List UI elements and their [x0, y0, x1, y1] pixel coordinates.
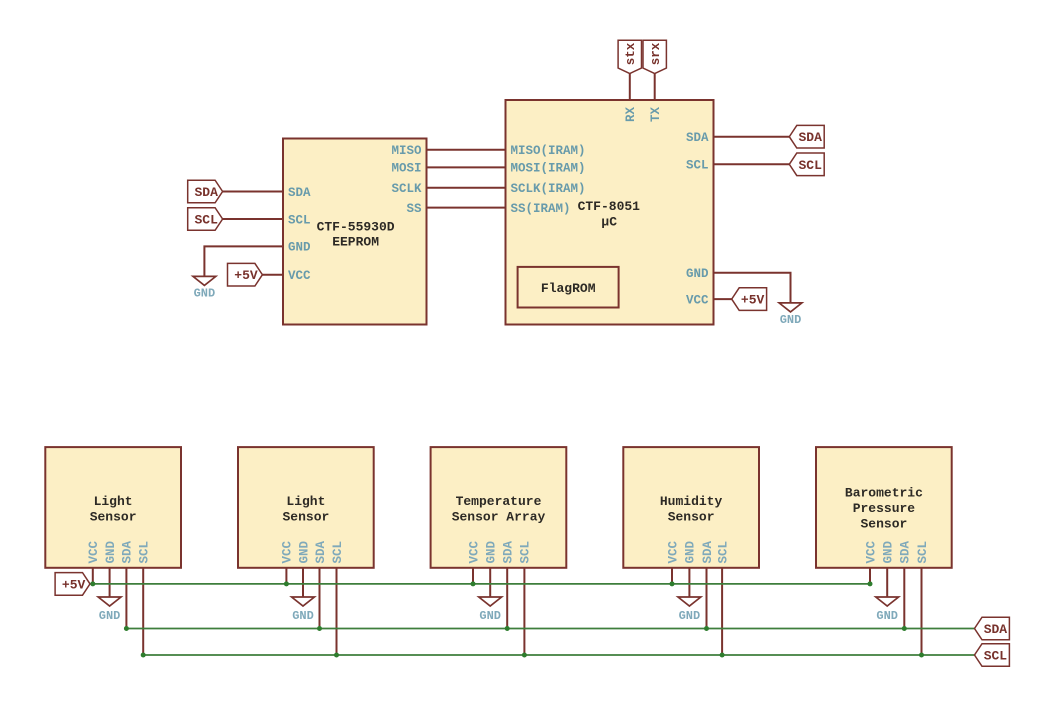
component U1 CTF-55930D EEPROM body [283, 139, 427, 325]
wire SS [427, 207, 506, 209]
global label stx [618, 40, 641, 73]
svg-text:SDA: SDA [686, 131, 709, 145]
svg-text:SCL: SCL [519, 541, 533, 564]
svg-text:GND: GND [479, 609, 501, 623]
svg-text:SDA: SDA [984, 622, 1008, 637]
svg-text:GND: GND [882, 540, 896, 563]
S1 SCL wire [142, 568, 144, 655]
junction S5 VCC [868, 581, 873, 586]
S5 GND wire [886, 568, 888, 597]
svg-text:GND: GND [104, 540, 118, 563]
svg-text:µC: µC [601, 215, 617, 230]
svg-text:SCL: SCL [984, 649, 1008, 664]
svg-text:SCLK(IRAM): SCLK(IRAM) [511, 182, 586, 196]
S5 VCC wire [869, 568, 871, 584]
S1 VCC wire [92, 568, 94, 584]
junction S4 SCL [720, 653, 725, 658]
svg-text:VCC: VCC [87, 540, 101, 563]
S1 GND wire [109, 568, 111, 597]
svg-text:FlagROM: FlagROM [541, 281, 596, 296]
svg-text:CTF-8051: CTF-8051 [578, 199, 641, 214]
wire U2 SCL [714, 163, 790, 165]
global label SCL bus [975, 644, 1010, 667]
svg-text:VCC: VCC [281, 540, 295, 563]
U2 FlagROM block [518, 267, 619, 308]
svg-text:Sensor: Sensor [860, 516, 907, 531]
svg-text:Sensor: Sensor [90, 509, 137, 524]
junction S5 SDA [902, 626, 907, 631]
S3 VCC wire [472, 568, 474, 584]
ground symbol U2 [779, 303, 802, 312]
svg-text:GND: GND [876, 609, 898, 623]
junction S3 VCC [471, 581, 476, 586]
svg-text:SDA: SDA [701, 540, 715, 563]
svg-text:GND: GND [297, 540, 311, 563]
svg-text:SCLK: SCLK [391, 182, 422, 196]
svg-text:GND: GND [288, 241, 311, 255]
svg-text:srx: srx [649, 42, 663, 65]
junction S2 SDA [317, 626, 322, 631]
svg-text:TX: TX [649, 106, 663, 122]
S3 ground symbol [479, 597, 502, 606]
svg-text:stx: stx [624, 42, 638, 65]
svg-text:Pressure: Pressure [853, 501, 916, 516]
junction S1 VCC [90, 581, 95, 586]
S3 GND wire [489, 568, 491, 597]
S2 GND wire [302, 568, 304, 597]
junction S1 SDA [124, 626, 129, 631]
svg-text:VCC: VCC [288, 269, 311, 283]
svg-text:SDA: SDA [288, 186, 311, 200]
svg-text:SCL: SCL [138, 541, 152, 564]
svg-text:SCL: SCL [194, 213, 218, 228]
power label +5V U2 [732, 288, 767, 311]
component U2 CTF-8051 microcontroller body [506, 100, 714, 325]
svg-text:MISO: MISO [391, 144, 422, 158]
ground symbol U1 [193, 276, 216, 285]
junction S2 SCL [334, 653, 339, 658]
wire SCLK [427, 187, 506, 189]
svg-text:Sensor: Sensor [668, 509, 715, 524]
S1 SDA wire [125, 568, 127, 629]
svg-text:SS(IRAM): SS(IRAM) [511, 202, 571, 216]
S1 ground symbol [98, 597, 121, 606]
junction S4 VCC [670, 581, 675, 586]
svg-text:Light: Light [286, 494, 325, 509]
svg-text:GND: GND [194, 287, 216, 301]
svg-text:MOSI(IRAM): MOSI(IRAM) [511, 162, 586, 176]
global label SDA right [789, 125, 824, 148]
svg-text:SDA: SDA [899, 540, 913, 563]
svg-text:VCC: VCC [686, 293, 709, 307]
S4 SCL wire [721, 568, 723, 655]
svg-text:MOSI: MOSI [391, 162, 421, 176]
svg-text:+5V: +5V [62, 577, 86, 592]
global label SCL left [188, 208, 223, 231]
S3 SDA wire [506, 568, 508, 629]
svg-text:SDA: SDA [314, 540, 328, 563]
S4 ground symbol [678, 597, 701, 606]
sensor S2 Light Sensor body [238, 447, 374, 568]
wire U2 SDA [714, 136, 790, 138]
S5 SDA wire [903, 568, 905, 629]
S4 GND wire [688, 568, 690, 597]
+5V rail wire [93, 583, 870, 585]
svg-text:Humidity: Humidity [660, 494, 723, 509]
wire srx to TX [654, 74, 656, 101]
svg-text:VCC: VCC [864, 540, 878, 563]
svg-text:Temperature: Temperature [456, 494, 542, 509]
svg-text:SDA: SDA [194, 185, 218, 200]
svg-text:SS: SS [406, 202, 422, 216]
S2 VCC wire [285, 568, 287, 584]
junction S3 SDA [505, 626, 510, 631]
S2 SCL wire [336, 568, 338, 655]
svg-text:SDA: SDA [121, 540, 135, 563]
sensor S3 Temperature Sensor Array body [431, 447, 567, 568]
global label SDA left [188, 180, 223, 203]
junction S4 SDA [704, 626, 709, 631]
S4 SDA wire [706, 568, 708, 629]
junction S5 SCL [919, 653, 924, 658]
svg-text:GND: GND [684, 540, 698, 563]
power label +5V U1 [228, 263, 263, 286]
svg-text:GND: GND [292, 609, 314, 623]
SDA bus wire [126, 628, 974, 630]
svg-text:SCL: SCL [916, 541, 930, 564]
svg-text:GND: GND [99, 609, 121, 623]
global label srx [643, 40, 666, 73]
svg-text:Barometric: Barometric [845, 485, 923, 500]
svg-text:EEPROM: EEPROM [332, 235, 379, 250]
wire U2 VCC to +5V [714, 298, 732, 300]
svg-text:GND: GND [686, 267, 709, 281]
sensor S5 Barometric Pressure Sensor body [816, 447, 952, 568]
svg-text:SCL: SCL [798, 158, 822, 173]
S4 VCC wire [671, 568, 673, 584]
wire MISO [427, 149, 506, 151]
svg-text:SCL: SCL [686, 159, 709, 173]
svg-text:+5V: +5V [741, 293, 765, 308]
wire stx to RX [629, 74, 631, 101]
S2 SDA wire [319, 568, 321, 629]
wire U2 GND to ground [714, 273, 791, 303]
svg-text:Sensor: Sensor [282, 509, 329, 524]
wire SCL to U1 [223, 218, 283, 220]
svg-text:VCC: VCC [666, 540, 680, 563]
svg-text:SCL: SCL [716, 541, 730, 564]
wire U1 GND to ground [204, 246, 283, 276]
sensor S4 Humidity Sensor body [623, 447, 759, 568]
svg-text:MISO(IRAM): MISO(IRAM) [511, 144, 586, 158]
svg-text:SCL: SCL [288, 213, 311, 227]
junction S3 SCL [522, 653, 527, 658]
svg-text:+5V: +5V [234, 268, 258, 283]
svg-text:CTF-55930D: CTF-55930D [317, 219, 395, 234]
svg-text:SCL: SCL [331, 541, 345, 564]
svg-text:VCC: VCC [467, 540, 481, 563]
S2 ground symbol [292, 597, 315, 606]
svg-text:Sensor Array: Sensor Array [452, 509, 546, 524]
svg-text:GND: GND [679, 609, 701, 623]
SCL bus wire [143, 654, 974, 656]
svg-text:Light: Light [94, 494, 133, 509]
sensor S1 Light Sensor body [45, 447, 181, 568]
global label SCL right [789, 153, 824, 176]
svg-text:GND: GND [485, 540, 499, 563]
svg-text:RX: RX [624, 106, 638, 122]
wire MOSI [427, 166, 506, 168]
S5 ground symbol [876, 597, 899, 606]
wire +5V to U1 VCC [262, 274, 283, 276]
power label +5V rail [55, 573, 90, 596]
junction S1 SCL [141, 653, 146, 658]
global label SDA bus [975, 617, 1010, 640]
svg-text:GND: GND [780, 313, 802, 327]
svg-text:SDA: SDA [502, 540, 516, 563]
S5 SCL wire [921, 568, 923, 655]
wire SDA to U1 [223, 191, 283, 193]
junction S2 VCC [284, 581, 289, 586]
svg-text:SDA: SDA [798, 130, 822, 145]
S3 SCL wire [523, 568, 525, 655]
